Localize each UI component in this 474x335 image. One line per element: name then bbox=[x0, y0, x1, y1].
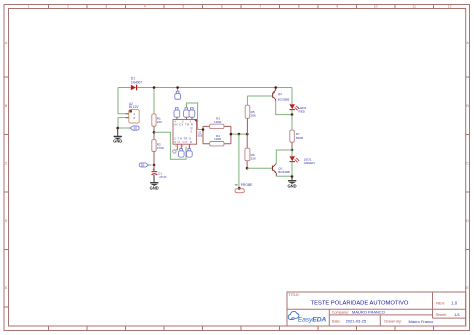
border ticks bottom bbox=[49, 326, 434, 331]
svg-text:3: 3 bbox=[105, 5, 107, 9]
svg-text:5: 5 bbox=[182, 5, 184, 9]
wire: rail stub to net port VCC bbox=[177, 88, 179, 92]
pin stub IC pin 6 bbox=[188, 144, 190, 148]
connector U2 IN 12V bbox=[126, 102, 140, 123]
svg-text:4: 4 bbox=[144, 5, 146, 9]
junction dot (rail / R1) bbox=[153, 86, 156, 89]
ground symbol GND (C1) bbox=[150, 183, 159, 191]
svg-text:Drawn By:: Drawn By: bbox=[384, 320, 402, 324]
resistor R4 120R bbox=[203, 134, 231, 146]
svg-text:1.0: 1.0 bbox=[451, 301, 457, 306]
wire: R7 to LED1 node bbox=[291, 142, 293, 150]
wire: R5 to node bbox=[246, 118, 248, 134]
wire: rail down to connector pin 1 bbox=[118, 88, 129, 114]
resistor R3 120R bbox=[203, 117, 231, 129]
resistor R1 22K bbox=[152, 114, 163, 126]
net port (IC pin 4) bbox=[174, 108, 180, 118]
svg-text:DIS GN: DIS GN bbox=[174, 140, 187, 144]
wire: R1 to R2 bbox=[153, 126, 155, 139]
wire: node to LED1 anode bbox=[291, 150, 293, 156]
net flag (input minus) bbox=[130, 126, 139, 130]
wire: pair output node bbox=[231, 133, 247, 135]
svg-text:47UF: 47UF bbox=[159, 175, 167, 179]
svg-text:120R: 120R bbox=[214, 137, 222, 141]
wire: node to R7 bbox=[291, 115, 293, 131]
wire: R6 to base node bbox=[246, 161, 248, 169]
svg-text:TESTE POLARIDADE AUTOMOTIVO: TESTE POLARIDADE AUTOMOTIVO bbox=[311, 301, 409, 307]
svg-text:1/1: 1/1 bbox=[454, 312, 460, 317]
capacitor C1 47UF bbox=[152, 165, 167, 179]
wire: resistor pair left vertical bbox=[202, 126, 204, 143]
resistor R6 22K bbox=[245, 148, 257, 161]
title block frame bbox=[287, 292, 466, 326]
svg-text:Q2: Q2 bbox=[278, 92, 282, 96]
svg-text:BC558B: BC558B bbox=[278, 97, 290, 101]
svg-text:2021-03-25: 2021-03-25 bbox=[346, 319, 367, 324]
svg-text:9: 9 bbox=[336, 5, 338, 9]
wire: IC output to resistor pair and pin 8 net bbox=[187, 103, 204, 130]
net port VCC (on rail) bbox=[175, 91, 181, 99]
junction dot (R7/LED1 node) bbox=[291, 149, 294, 152]
border ticks right bbox=[466, 77, 470, 250]
svg-text:MAURO FRANCO: MAURO FRANCO bbox=[352, 310, 385, 315]
transistor Q2 BC558B bbox=[272, 88, 289, 102]
pin stub IC pin 5 bbox=[191, 117, 193, 119]
wire: LED1 cathode to ground node bbox=[291, 162, 293, 177]
svg-text:RED: RED bbox=[299, 110, 306, 114]
junction dot (pair right) bbox=[230, 133, 233, 136]
svg-text:GREEN: GREEN bbox=[304, 161, 315, 165]
net flag (C1 node) bbox=[139, 163, 151, 167]
svg-text:22K: 22K bbox=[157, 120, 163, 124]
junction dot (divider node) bbox=[153, 131, 156, 134]
wire: rail to R1 bbox=[153, 88, 155, 114]
pin stub IC pin 2 bbox=[180, 144, 182, 148]
net port (IC pin 2) bbox=[178, 149, 184, 158]
svg-text:Sheet:: Sheet: bbox=[436, 313, 447, 317]
svg-text:TITLE:: TITLE: bbox=[289, 293, 300, 297]
svg-text:20K: 20K bbox=[251, 114, 257, 118]
svg-text:12: 12 bbox=[448, 5, 452, 9]
net port (IC pin 6) bbox=[187, 149, 193, 158]
svg-text:555: 555 bbox=[198, 134, 203, 138]
wire: connector pin 2 to ground node bbox=[118, 118, 129, 128]
junction dot (Q1 base node) bbox=[246, 167, 249, 170]
EasyEDA logo bbox=[288, 311, 326, 323]
wire: Q1 emitter to ground node bbox=[276, 175, 292, 177]
wire: +12V top rail (right of D1) bbox=[137, 87, 292, 89]
border ticks left bbox=[4, 77, 9, 307]
junction dot (R5/R6 node) bbox=[246, 133, 249, 136]
svg-text:Date:: Date: bbox=[332, 320, 341, 324]
ground stem (C1) bbox=[153, 175, 155, 183]
LED LED1 GREEN bbox=[290, 156, 315, 165]
wire: Q1 base bbox=[247, 167, 272, 169]
wire: node to R6 bbox=[246, 134, 248, 148]
pin stub IC pin 4 bbox=[176, 117, 178, 119]
wire: divider node to IC pin (loop under IC) bbox=[154, 132, 186, 159]
transistor Q1 BC548B bbox=[272, 164, 290, 177]
net port (IC pin 8) bbox=[184, 108, 190, 118]
svg-text:EasyEDA: EasyEDA bbox=[298, 317, 327, 324]
diode D1 1N4007 bbox=[131, 77, 142, 91]
svg-text:560R: 560R bbox=[296, 136, 304, 140]
svg-text:22K: 22K bbox=[251, 156, 257, 160]
svg-text:470K: 470K bbox=[157, 146, 165, 150]
svg-text:Mauro Franco: Mauro Franco bbox=[409, 319, 435, 324]
svg-text:10: 10 bbox=[374, 5, 378, 9]
pin stub IC pin 8 bbox=[186, 117, 188, 119]
wire: LED2 to node bbox=[291, 110, 293, 115]
border zone letters left bbox=[5, 41, 469, 290]
ground stem (input) bbox=[117, 128, 119, 136]
border ticks top bbox=[49, 5, 434, 9]
resistor R7 560R bbox=[290, 130, 304, 142]
svg-text:D: D bbox=[190, 140, 192, 144]
resistor R2 470K bbox=[152, 140, 165, 152]
wire: probe drop bbox=[238, 134, 240, 187]
wire: +12V top rail (left of D1) bbox=[118, 87, 131, 89]
wire: Q2 base bbox=[247, 95, 272, 97]
svg-text:6: 6 bbox=[221, 5, 223, 9]
svg-text:120R: 120R bbox=[214, 120, 222, 124]
svg-text:1N4007: 1N4007 bbox=[131, 80, 142, 84]
ground symbol GND (output) bbox=[287, 181, 296, 189]
wire: ground node to net flag bbox=[118, 127, 131, 129]
junction dot (LED2 cathode node) bbox=[291, 113, 294, 116]
junction dot (input ground node) bbox=[116, 127, 119, 130]
junction dot (Q2 emitter on rail) bbox=[274, 86, 277, 89]
svg-text:2: 2 bbox=[67, 5, 69, 9]
wire: rail to LED2 anode bbox=[291, 88, 293, 105]
wire: R2 to C1 node bbox=[153, 152, 155, 166]
wire: node to Q1 collector bbox=[276, 150, 292, 164]
svg-text:C TH TR G: C TH TR G bbox=[174, 137, 191, 141]
junction dot (rail / net port) bbox=[176, 86, 179, 89]
net flag (IC pin 1) bbox=[173, 144, 178, 153]
svg-text:Company:: Company: bbox=[332, 310, 349, 314]
svg-text:7: 7 bbox=[259, 5, 261, 9]
svg-text:GND: GND bbox=[150, 185, 159, 190]
ground symbol GND (input) bbox=[113, 136, 122, 143]
svg-text:11: 11 bbox=[412, 5, 416, 9]
border zone numbers top bbox=[28, 5, 452, 9]
svg-text:GND: GND bbox=[113, 138, 122, 143]
IC U1 555 bbox=[173, 120, 203, 149]
wire: base to R5 bbox=[246, 96, 248, 105]
LED LED2 RED bbox=[290, 104, 307, 113]
svg-text:8: 8 bbox=[298, 5, 300, 9]
resistor R5 20K bbox=[245, 105, 257, 118]
junction dot (IC output node) bbox=[202, 128, 205, 131]
svg-text:IN 12V: IN 12V bbox=[129, 105, 140, 109]
junction dot (C1 node) bbox=[153, 164, 156, 167]
svg-text:GND: GND bbox=[287, 183, 296, 188]
ground stem (output) bbox=[291, 177, 293, 181]
svg-text:REV: REV bbox=[436, 301, 445, 306]
svg-text:BC548B: BC548B bbox=[278, 170, 290, 174]
svg-text:PROBE: PROBE bbox=[241, 183, 253, 187]
wire: resistor pair right vertical bbox=[230, 126, 232, 143]
net port (IC pin 5) bbox=[189, 108, 195, 118]
probe test point bbox=[235, 183, 254, 193]
svg-text:1: 1 bbox=[28, 5, 30, 9]
junction dot (probe node) bbox=[238, 133, 241, 136]
svg-text:Q: Q bbox=[191, 126, 193, 130]
wire: Q2 collector to LED2 cathode node bbox=[276, 101, 292, 114]
svg-text:TP: TP bbox=[235, 184, 238, 187]
junction dot (output ground node) bbox=[291, 175, 294, 178]
